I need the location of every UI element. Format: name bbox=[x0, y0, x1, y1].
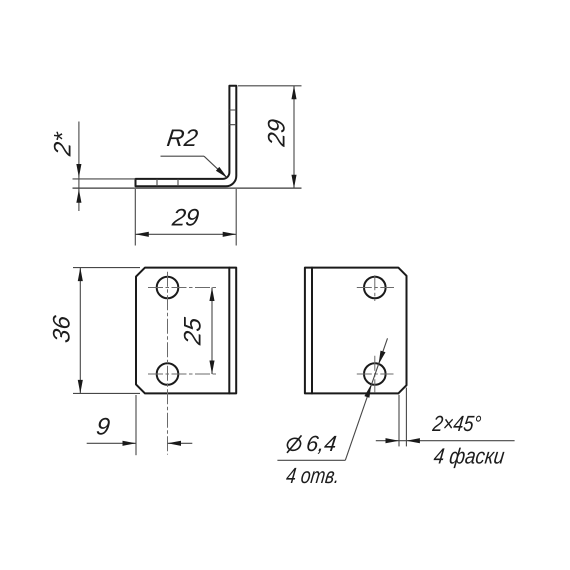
front view right: plate outline with chamfered corners bbox=[305, 268, 407, 394]
dimension 29 bottom arrow right bbox=[223, 232, 237, 237]
svg-text:36: 36 bbox=[49, 314, 76, 345]
dimension 2x45 line with underline bbox=[376, 440, 515, 442]
dimension 9 line right segment bbox=[168, 442, 193, 444]
dimension 2* / 29 shared bottom extension line bbox=[73, 187, 302, 189]
dimension 25 arrow up bbox=[209, 288, 214, 302]
dimension 2x45 extension right bbox=[405, 388, 407, 447]
front view right: hole top bbox=[364, 277, 386, 299]
leader underline hole diameter bbox=[277, 459, 345, 461]
dimension 2x45 extension left bbox=[398, 395, 400, 447]
dimension 29 bottom extension right bbox=[235, 189, 237, 246]
dimension 9 arrow right-pointing bbox=[123, 441, 137, 446]
svg-text:R2: R2 bbox=[165, 125, 200, 152]
dimension 29 right arrow up bbox=[291, 86, 296, 100]
leader underline R2 bbox=[161, 155, 205, 157]
leader arrow R2 bbox=[216, 167, 228, 178]
front view left: centerline vertical through holes bbox=[167, 272, 169, 455]
dimension 25 line bbox=[211, 288, 213, 375]
dimension 2* arrow down bbox=[76, 164, 81, 178]
front view right: centerline vertical bottom hole bbox=[374, 356, 376, 393]
dimension 36 arrow up bbox=[78, 268, 83, 282]
dimension 2x45 arrow right-pointing bbox=[386, 438, 400, 443]
dimension 29 bottom extension left bbox=[134, 189, 136, 246]
svg-text:29: 29 bbox=[264, 118, 291, 149]
side view: angle bracket outer contour with bend R2 bbox=[136, 86, 237, 187]
dimension 29 right arrow down bbox=[291, 175, 296, 189]
leader arrow lower at hole edge bbox=[364, 384, 371, 398]
leader line hole diameter bbox=[345, 338, 387, 460]
dimension 29 right extension line top bbox=[238, 85, 302, 87]
front view left: centerline horizontal bottom hole bbox=[148, 373, 218, 375]
svg-text:2*: 2* bbox=[50, 130, 77, 159]
svg-text:4 отв.: 4 отв. bbox=[285, 463, 341, 488]
svg-text:25: 25 bbox=[180, 316, 207, 348]
leader arrow upper at hole edge bbox=[379, 351, 386, 365]
front view right: centerline horizontal bottom hole bbox=[357, 373, 394, 375]
dimension 29 right line bbox=[293, 86, 295, 189]
front view right: bend tangent line bbox=[311, 268, 313, 394]
front view left: plate outline with chamfered corners bbox=[136, 268, 236, 394]
front view left: centerline horizontal top hole bbox=[148, 287, 218, 289]
dimension 36 extension bottom bbox=[73, 392, 140, 394]
dimension 29 bottom line bbox=[135, 233, 236, 235]
front view left: hole top bbox=[157, 277, 179, 299]
front view left: bend tangent line bbox=[228, 268, 230, 394]
side view: hole edge tick marks on vertical leg bbox=[229, 110, 236, 125]
front view right: centerline vertical top hole bbox=[374, 275, 376, 301]
leader line R2 to bend radius bbox=[204, 156, 227, 177]
dimension 36 arrow down bbox=[78, 380, 83, 394]
svg-text:2×45°: 2×45° bbox=[431, 411, 483, 436]
dimension 9 line left segment bbox=[87, 442, 136, 444]
side view: hole edge tick marks on horizontal leg bbox=[157, 179, 178, 186]
svg-text:9: 9 bbox=[95, 414, 112, 441]
svg-text:4 фаски: 4 фаски bbox=[432, 443, 506, 468]
dimension 9 extension line left bbox=[135, 395, 137, 455]
svg-text:29: 29 bbox=[170, 205, 201, 232]
dimension 2* line bbox=[78, 122, 80, 212]
dimension 36 extension top bbox=[73, 267, 140, 269]
front view right: centerline horizontal top hole bbox=[357, 287, 394, 289]
svg-text:6,4: 6,4 bbox=[305, 431, 338, 456]
dimension 2* arrow up bbox=[76, 189, 81, 203]
dimension 36 line bbox=[79, 268, 81, 394]
front view right: hole bottom bbox=[364, 363, 386, 385]
dimension 2* extension line top surface bbox=[73, 178, 136, 180]
dimension 2x45 arrow left-pointing bbox=[406, 438, 420, 443]
dimension 9 arrow left-pointing bbox=[168, 441, 182, 446]
dimension 25 arrow down bbox=[209, 361, 214, 375]
diameter symbol bbox=[285, 435, 302, 453]
dimension 29 bottom arrow left bbox=[135, 232, 149, 237]
front view left: hole bottom bbox=[157, 363, 179, 385]
